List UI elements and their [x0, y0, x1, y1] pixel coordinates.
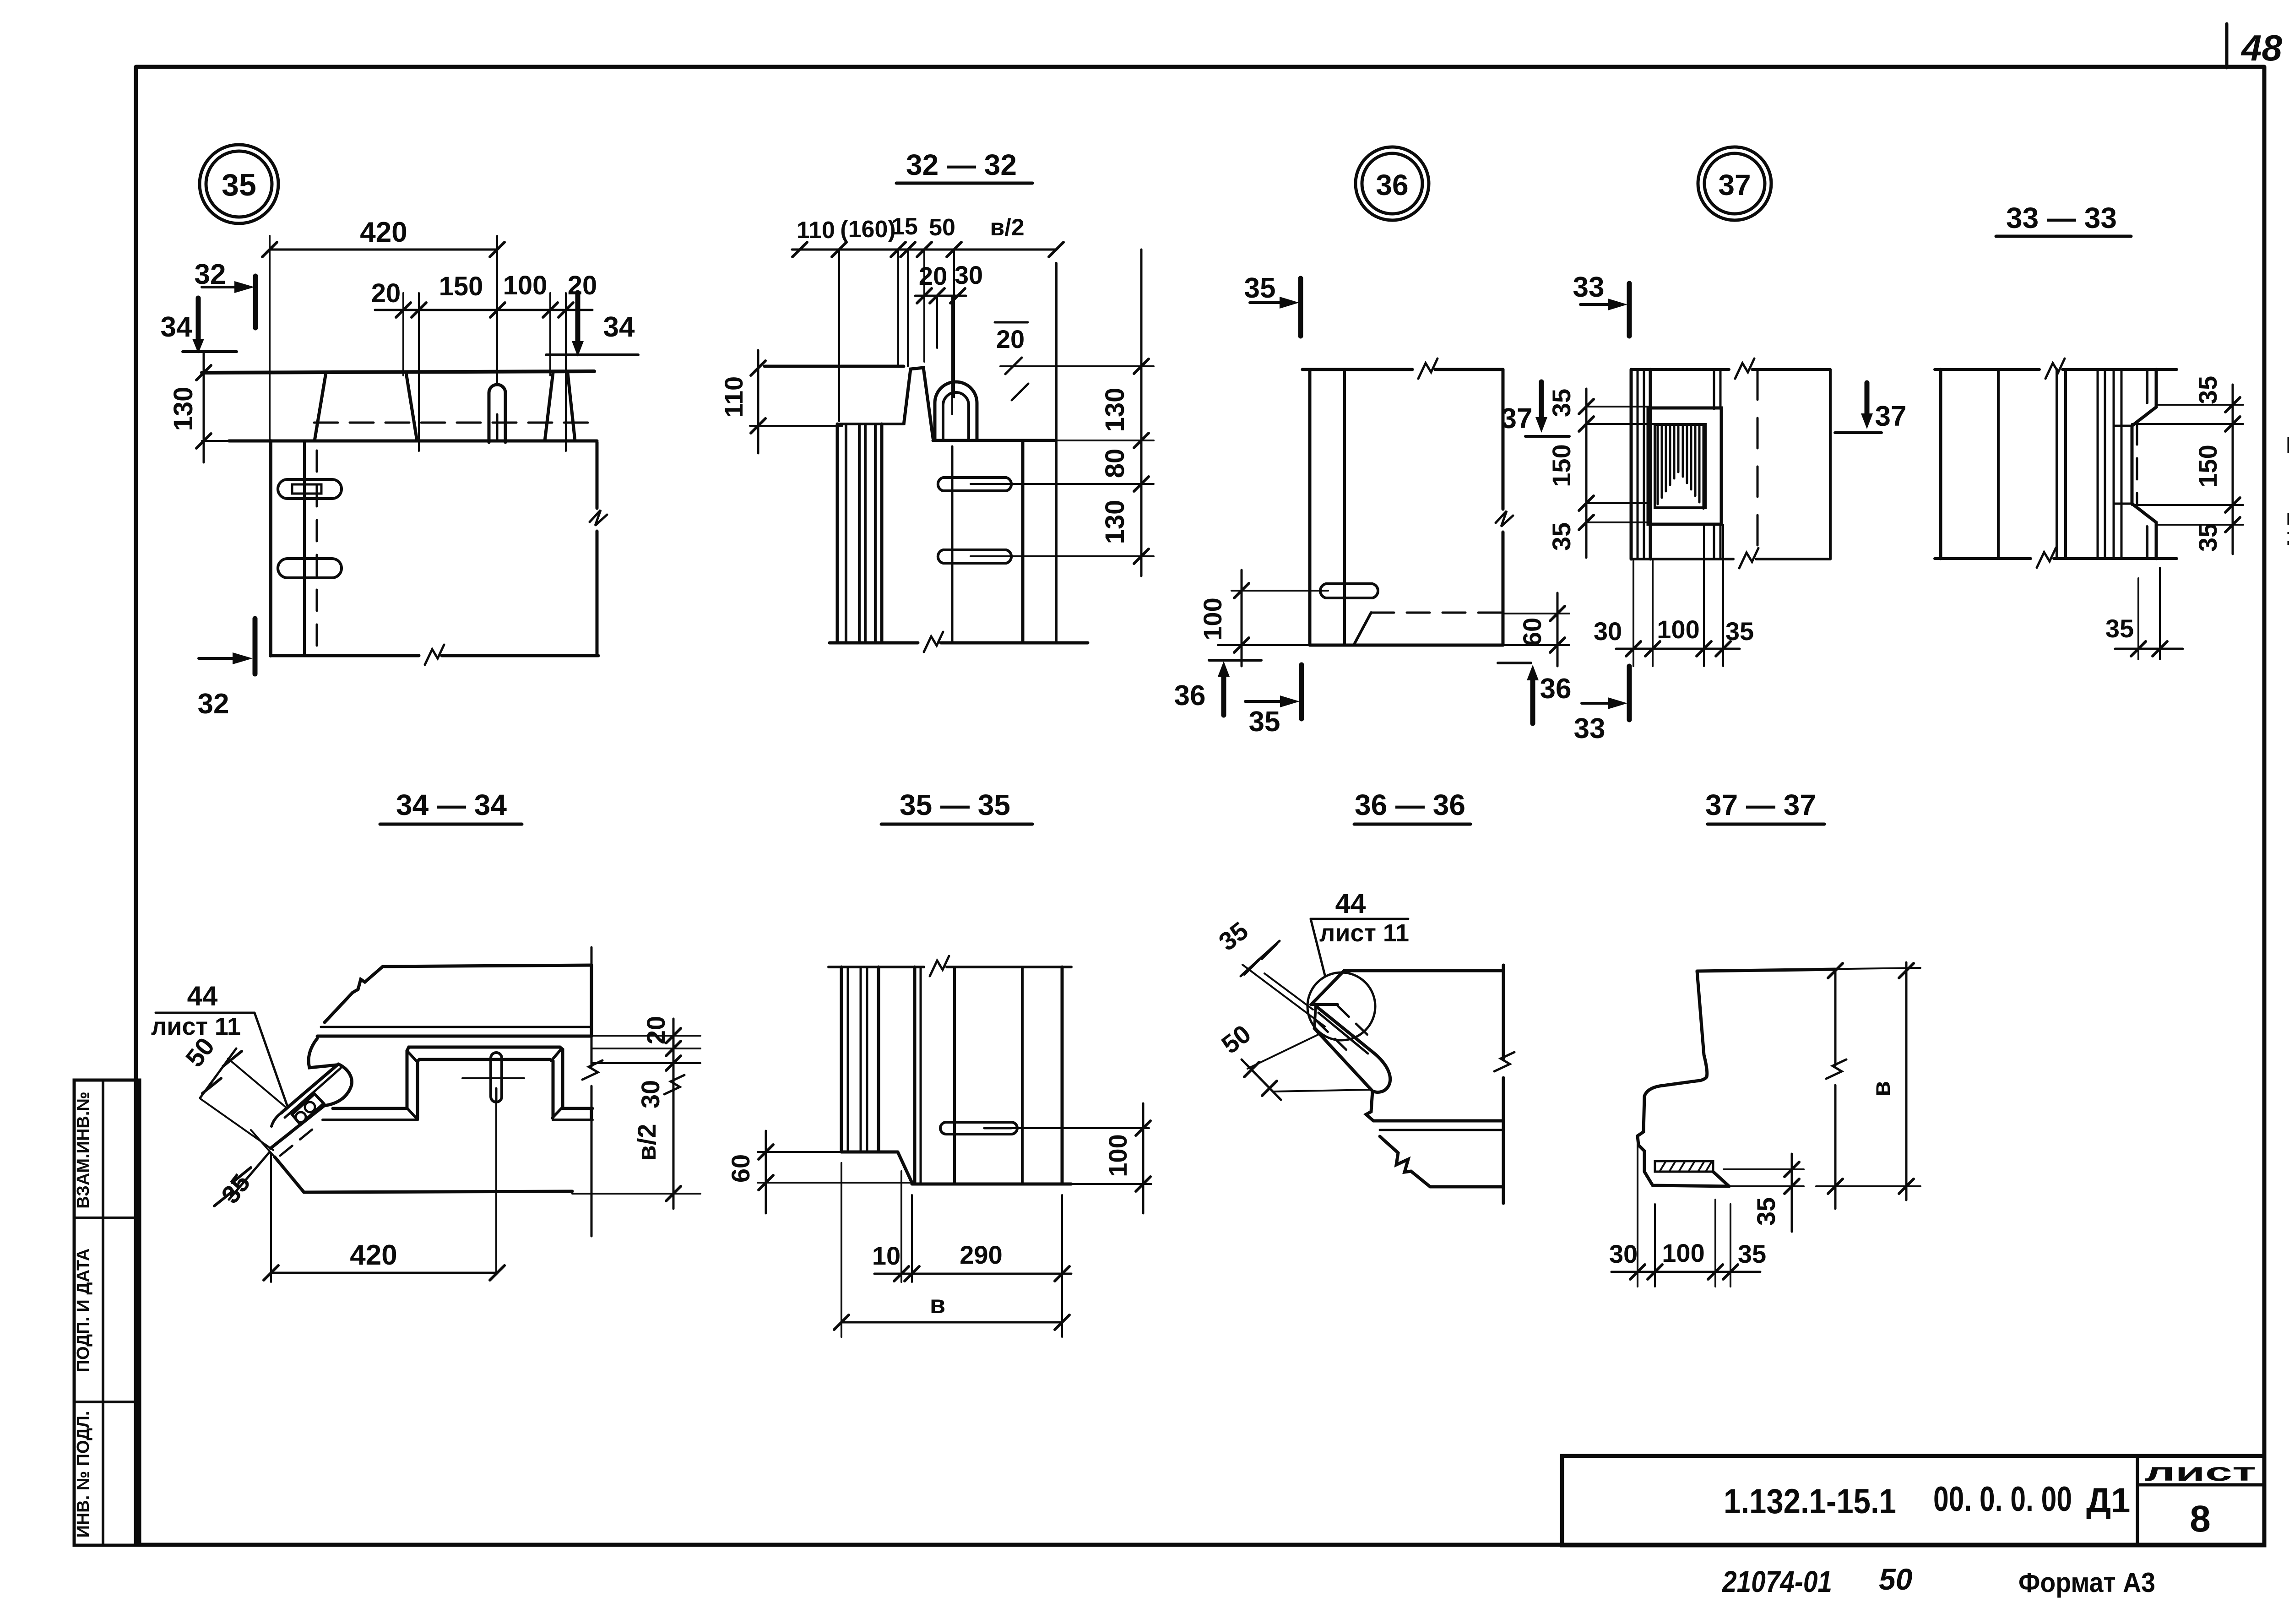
slot stadium [940, 1122, 1017, 1134]
section marker 37 down [1539, 382, 1544, 417]
top edge with break [1935, 368, 2177, 371]
svg-text:80: 80 [1100, 449, 1130, 478]
strip left end [1314, 1006, 1316, 1028]
svg-text:20: 20 [568, 271, 597, 300]
svg-text:ПОДП. И ДАТА: ПОДП. И ДАТА [74, 1249, 93, 1373]
groove shelf lines left [333, 1107, 407, 1110]
svg-text:100: 100 [1662, 1238, 1704, 1267]
right edge short verticals [590, 965, 593, 1036]
wall hidden dashed line [316, 451, 318, 654]
svg-text:130: 130 [168, 387, 198, 431]
svg-text:37 — 37: 37 — 37 [1705, 788, 1816, 821]
fold mark dashes right edge [2288, 437, 2289, 545]
svg-text:100: 100 [503, 271, 548, 300]
top dim chain line [792, 249, 1056, 251]
bottom left bevel [251, 1130, 275, 1157]
section marker 37 right [1865, 383, 1870, 413]
svg-text:44: 44 [187, 981, 218, 1011]
layer verticals [1939, 369, 1942, 559]
left layer verticals [840, 967, 843, 1152]
bottom edge with break [1935, 557, 2177, 560]
dim 420 extensions [269, 236, 271, 451]
block right edge with break [1502, 369, 1505, 645]
svg-text:30: 30 [1594, 617, 1622, 646]
svg-text:в/2: в/2 [990, 214, 1024, 241]
svg-text:100: 100 [1103, 1134, 1132, 1177]
pin stadium [491, 1053, 502, 1102]
flange left end cap [271, 1113, 281, 1126]
svg-text:34: 34 [161, 311, 192, 343]
svg-text:60: 60 [726, 1154, 755, 1183]
section marker 34 left [196, 298, 201, 339]
svg-text:130: 130 [1100, 500, 1130, 544]
svg-text:21074-01: 21074-01 [1721, 1564, 1832, 1598]
block inner vertical [1343, 369, 1346, 645]
flashing strip upper edge with rounded end [1316, 1006, 1390, 1092]
svg-text:150: 150 [439, 272, 483, 301]
svg-text:110: 110 [797, 217, 835, 244]
dim 20 30 line [915, 295, 966, 297]
bottom edge [912, 1183, 1071, 1186]
dim 420 bottom [270, 1154, 272, 1282]
block top edge with break [1302, 368, 1503, 371]
right edge [1061, 967, 1064, 1184]
slot centerline to dim [1011, 1127, 1149, 1129]
flange right rounded cap [324, 1064, 352, 1106]
sheet number 48 tick [2225, 24, 2229, 68]
svg-text:30: 30 [636, 1080, 665, 1108]
label 44 leader line [1311, 918, 1408, 920]
svg-text:лист 11: лист 11 [1319, 919, 1409, 947]
slot stadium [1320, 584, 1378, 598]
left margin stamp table [74, 1080, 140, 1545]
lower block verticals [1021, 440, 1025, 643]
embedded plate inner rect [1655, 424, 1705, 508]
svg-text:35: 35 [1725, 617, 1754, 646]
bottom edge [1430, 1185, 1503, 1189]
section marker 33 bottom flag [1627, 666, 1632, 720]
dim 130 vertical [203, 353, 205, 462]
slot centerlines extended [971, 483, 1154, 485]
svg-text:20: 20 [371, 278, 401, 308]
groove corner chamfers [407, 1048, 563, 1119]
svg-text:(160): (160) [840, 216, 895, 243]
dim 50 line [1242, 1059, 1281, 1100]
svg-text:290: 290 [960, 1240, 1002, 1269]
svg-text:35 — 35: 35 — 35 [900, 788, 1010, 821]
dim 20 150 100 20 line [375, 309, 592, 311]
svg-text:37: 37 [1718, 168, 1751, 201]
bottom dim 35 [2137, 578, 2139, 659]
detail balloon circle 37 [1698, 147, 1771, 220]
svg-text:20: 20 [641, 1016, 670, 1044]
svg-text:36: 36 [1376, 168, 1408, 201]
svg-text:32: 32 [198, 688, 229, 720]
panel bottom edge with break [1631, 558, 1830, 560]
svg-text:ВЗАМ.ИНВ.№: ВЗАМ.ИНВ.№ [74, 1092, 93, 1209]
svg-text:10: 10 [872, 1241, 900, 1270]
dim 50 diagonal [228, 1059, 286, 1107]
step bottom of layers [841, 1151, 898, 1154]
svg-text:Формат А3: Формат А3 [2018, 1567, 2155, 1598]
hidden dashed joint line [1757, 369, 1759, 559]
svg-text:420: 420 [350, 1239, 397, 1271]
svg-text:35: 35 [1244, 272, 1276, 304]
section marker 36 up right [1530, 680, 1535, 723]
svg-text:32 — 32: 32 — 32 [906, 148, 1017, 181]
pin centerline vertical [495, 1102, 497, 1273]
block bottom edge [1310, 644, 1503, 647]
svg-text:00. 0. 0. 00: 00. 0. 0. 00 [1933, 1480, 2072, 1519]
dim 35 extensions [1242, 965, 1325, 1027]
section marker 35 flag bottom [1299, 665, 1304, 719]
ledge diagonal [1354, 613, 1371, 645]
slab top edge [383, 965, 591, 967]
section marker 32 top [253, 276, 258, 328]
right dim chain 20 30 B/2 [673, 1019, 675, 1209]
dim 110 left vertical [757, 350, 759, 453]
svg-text:30: 30 [1609, 1239, 1638, 1268]
svg-text:33: 33 [1573, 272, 1605, 303]
pad bottom diagonal [1713, 1172, 1729, 1186]
right dim chain 35 150 35 [2232, 385, 2234, 554]
section marker 36 up left [1221, 677, 1226, 715]
dim 50 extensions [1248, 1033, 1321, 1069]
right edge with break [1502, 965, 1505, 1203]
top edge [1697, 969, 1835, 971]
flange lower edge [271, 1106, 324, 1148]
svg-text:35: 35 [1547, 522, 1576, 551]
joint verticals near plate [1713, 369, 1715, 409]
svg-text:130: 130 [1100, 388, 1130, 432]
right notched edge [2132, 369, 2156, 559]
section marker 33 top flag [1627, 283, 1632, 336]
dim 60 [765, 1131, 767, 1213]
pin centerline horizontal [462, 1077, 524, 1079]
bottom edge with break [830, 641, 1088, 645]
flange upper edge [281, 1064, 338, 1113]
right dim chain 130 80 130 [1140, 250, 1143, 576]
hidden dashed line along flange [280, 1127, 315, 1156]
dim B extensions [1813, 968, 1920, 969]
hidden dashed ledge [1371, 612, 1503, 614]
svg-text:ИНВ. № ПОДЛ.: ИНВ. № ПОДЛ. [74, 1411, 93, 1538]
lower left diagonal with notch [1380, 1136, 1430, 1187]
block left edge [1308, 369, 1312, 645]
svg-text:50: 50 [1879, 1562, 1913, 1596]
bottom dim 30 100 35 [1637, 1145, 1638, 1287]
detail balloon circle on corner [1307, 972, 1375, 1040]
wall left edge [269, 441, 272, 656]
left block face lines [837, 423, 884, 425]
svg-text:33: 33 [1574, 713, 1606, 744]
wall inner line [303, 441, 306, 656]
svg-text:лист: лист [2144, 1457, 2256, 1486]
mid verticals [913, 967, 917, 1183]
left dim chain 35 150 35 [1585, 389, 1588, 558]
groove shelf lines right [563, 1107, 592, 1110]
svg-text:36 — 36: 36 — 36 [1355, 788, 1465, 821]
top left diagonal with notch [325, 967, 383, 1022]
svg-text:8: 8 [2190, 1498, 2211, 1540]
svg-text:150: 150 [1547, 444, 1576, 487]
slab top edge [1344, 969, 1503, 972]
lower surface double line [1373, 1119, 1503, 1123]
section marker 32 bottom [253, 619, 258, 674]
top edge with break [829, 966, 1071, 968]
ladder slot 2 [938, 550, 1011, 563]
bottom dim 30 100 35 [1633, 559, 1634, 666]
svg-text:30: 30 [955, 261, 983, 289]
slab top edge [202, 371, 594, 373]
hidden dashed corner lines [1338, 1006, 1369, 1036]
anchor bar centerline [951, 296, 953, 414]
svg-text:34 — 34: 34 — 34 [396, 788, 507, 821]
anchor hook outer [935, 382, 977, 440]
hidden dashed notch line [2136, 424, 2138, 504]
section marker 34 right [575, 293, 580, 341]
right dim extensions [591, 1035, 700, 1037]
inner edge stubs [2146, 369, 2148, 403]
corner stub [1311, 1003, 1338, 1006]
svg-text:Д1: Д1 [2086, 1481, 2130, 1520]
svg-text:20: 20 [996, 325, 1025, 353]
anchor loop pin [489, 385, 505, 442]
extension for 130 top [1000, 365, 1154, 367]
embedded plate on flange [292, 1094, 324, 1124]
hatched pad [1655, 1161, 1713, 1172]
embedded plate outer rect [1648, 408, 1721, 524]
profile below strip [1366, 1091, 1373, 1121]
dim extensions for rib dims [402, 293, 404, 375]
wall right edge with break [596, 442, 599, 656]
svg-text:35: 35 [1547, 389, 1576, 417]
dim 100 vertical [1241, 570, 1243, 666]
dim 100 right [1142, 1103, 1144, 1213]
svg-text:20: 20 [919, 261, 947, 290]
slab bottom line at rib base [229, 440, 597, 443]
svg-text:1.132.1-15.1: 1.132.1-15.1 [1724, 1482, 1896, 1521]
svg-text:34: 34 [603, 311, 635, 343]
svg-text:32: 32 [195, 259, 226, 290]
dim 35 diagonal at tip [229, 1152, 270, 1200]
loop slot lower [278, 559, 342, 578]
title block box [1562, 1456, 2264, 1545]
svg-text:150: 150 [2193, 445, 2222, 487]
small dim 20 at hook [995, 321, 1028, 324]
panel left edge lines [1630, 369, 1633, 559]
svg-text:44: 44 [1335, 888, 1366, 919]
dim 420 line [270, 249, 497, 251]
extension to 35 dim [1724, 1168, 1804, 1170]
svg-text:100: 100 [1198, 597, 1227, 640]
slot centerline to left dim [1231, 590, 1328, 592]
detail balloon circle 36 [1356, 147, 1429, 220]
flashing strip lower edge [1314, 1028, 1372, 1091]
dim B inner line with break [1834, 969, 1837, 1209]
leader 44 list 11 [156, 1012, 255, 1014]
step top of lower block [933, 439, 1056, 442]
panel right edge [1829, 369, 1832, 559]
svg-text:37: 37 [1875, 401, 1907, 432]
svg-text:60: 60 [1518, 618, 1546, 646]
anchor hook inner [943, 392, 969, 440]
left extensions to 60 dim [758, 1151, 841, 1153]
bottom dim 10 290 [900, 1171, 902, 1282]
left foot profile [1638, 971, 1729, 1186]
svg-text:37: 37 [1501, 403, 1533, 435]
slab surface double line [321, 1026, 591, 1028]
right edge extension line with break [591, 947, 593, 1236]
groove inner contour [418, 1059, 553, 1118]
svg-text:35: 35 [1249, 706, 1280, 738]
detail balloon circle 35 [200, 145, 278, 223]
svg-text:в/2: в/2 [632, 1124, 661, 1161]
left surface line [765, 365, 904, 368]
rib trapezoid left [315, 373, 326, 441]
dim B bottom [841, 1163, 842, 1337]
svg-text:35: 35 [2193, 523, 2222, 552]
dim 35 line [1241, 941, 1280, 976]
dim 35 [1791, 1154, 1793, 1232]
svg-text:35: 35 [1752, 1197, 1780, 1226]
svg-text:36: 36 [1174, 680, 1206, 712]
svg-text:36: 36 [1540, 673, 1572, 705]
svg-text:15: 15 [891, 213, 918, 240]
loop slot upper [278, 479, 342, 499]
wall bottom edge with break [271, 654, 598, 657]
svg-text:420: 420 [360, 217, 407, 248]
left end face [309, 1038, 336, 1068]
groove outer contour [407, 1047, 563, 1108]
svg-text:35: 35 [222, 168, 256, 202]
notch horizontal stubs [2115, 425, 2132, 427]
corner cut small diagonal [1312, 971, 1344, 1004]
rib profile hat [904, 368, 935, 440]
dim B outer line [1905, 962, 1908, 1200]
svg-text:в: в [1866, 1081, 1895, 1097]
hatching [1658, 427, 1703, 509]
svg-text:100: 100 [1657, 615, 1699, 644]
svg-text:110: 110 [719, 376, 748, 418]
rib trapezoid right partial [545, 373, 553, 441]
step diagonal [898, 1152, 912, 1183]
dim 60 right [1503, 613, 1569, 614]
ladder slot 1 [938, 478, 1011, 491]
svg-text:в: в [930, 1290, 945, 1319]
svg-text:50: 50 [929, 214, 955, 241]
section marker 35 top flag [1298, 278, 1303, 336]
panel top edge with break [1631, 368, 1830, 371]
top dim extensions [838, 250, 840, 421]
svg-text:35: 35 [2105, 614, 2134, 643]
hidden dashed line across ribs [314, 422, 595, 424]
svg-text:35: 35 [1738, 1239, 1766, 1268]
svg-text:35: 35 [2193, 376, 2222, 404]
svg-text:33 — 33: 33 — 33 [2006, 201, 2117, 234]
slab bottom edge [304, 1191, 572, 1192]
svg-text:48: 48 [2240, 27, 2282, 68]
